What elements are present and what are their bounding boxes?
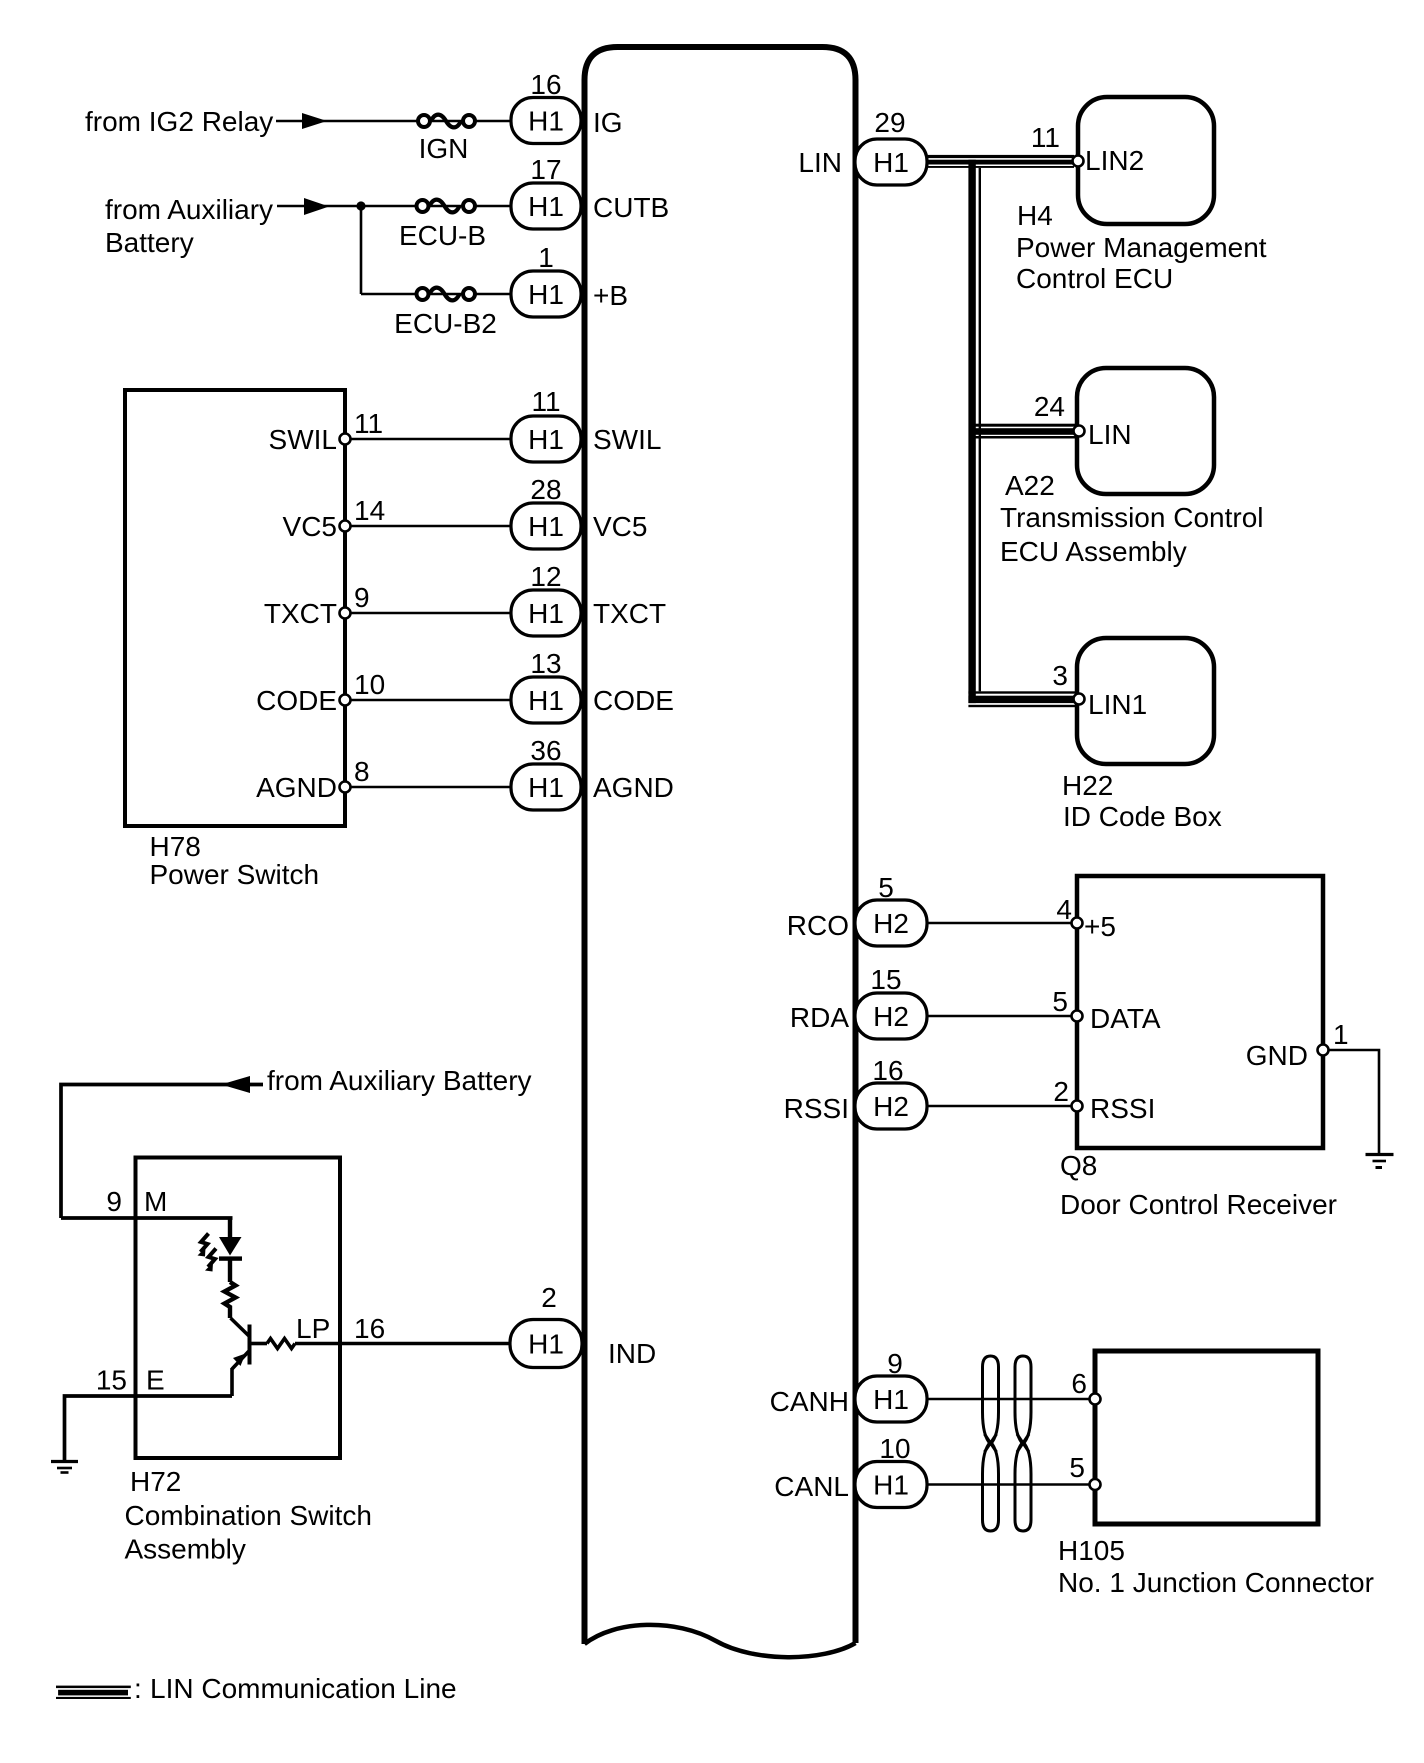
svg-text:SWIL: SWIL — [269, 424, 337, 455]
svg-text:1: 1 — [538, 242, 554, 273]
svg-text:Battery: Battery — [105, 227, 194, 258]
svg-text:H22: H22 — [1062, 770, 1113, 801]
svg-text:IG: IG — [593, 107, 623, 138]
svg-text:15: 15 — [96, 1365, 127, 1396]
svg-text:ECU-B2: ECU-B2 — [394, 308, 497, 339]
svg-text:VC5: VC5 — [593, 511, 647, 542]
svg-text:Door Control Receiver: Door Control Receiver — [1060, 1189, 1337, 1220]
svg-text:from Auxiliary Battery: from Auxiliary Battery — [267, 1065, 532, 1096]
svg-text:ECU-B: ECU-B — [399, 220, 486, 251]
svg-text:H1: H1 — [528, 685, 564, 716]
svg-text:10: 10 — [879, 1433, 910, 1464]
svg-text:LIN: LIN — [798, 147, 842, 178]
svg-text:16: 16 — [354, 1313, 385, 1344]
svg-text:DATA: DATA — [1090, 1003, 1161, 1034]
svg-text:H2: H2 — [873, 1001, 909, 1032]
svg-text:SWIL: SWIL — [593, 424, 661, 455]
svg-text:H1: H1 — [528, 511, 564, 542]
svg-text:2: 2 — [541, 1282, 557, 1313]
svg-text:28: 28 — [530, 474, 561, 505]
svg-text:Control ECU: Control ECU — [1016, 263, 1173, 294]
svg-text:TXCT: TXCT — [264, 598, 337, 629]
svg-text:9: 9 — [887, 1348, 903, 1379]
svg-text:LIN2: LIN2 — [1085, 145, 1144, 176]
svg-text:RSSI: RSSI — [784, 1093, 849, 1124]
svg-text:LIN Communication Line: LIN Communication Line — [150, 1673, 457, 1704]
svg-text:ID Code Box: ID Code Box — [1063, 801, 1222, 832]
svg-text:29: 29 — [874, 107, 905, 138]
svg-text:IGN: IGN — [419, 133, 469, 164]
svg-text:from IG2 Relay: from IG2 Relay — [85, 106, 273, 137]
svg-text:ECU Assembly: ECU Assembly — [1000, 536, 1187, 567]
svg-text:15: 15 — [870, 964, 901, 995]
svg-text:6: 6 — [1071, 1368, 1087, 1399]
svg-text:AGND: AGND — [256, 772, 337, 803]
svg-text:Q8: Q8 — [1060, 1150, 1097, 1181]
svg-text:IND: IND — [608, 1338, 656, 1369]
svg-text:Combination Switch: Combination Switch — [125, 1500, 372, 1531]
svg-text:16: 16 — [530, 69, 561, 100]
svg-text:5: 5 — [1052, 986, 1068, 1017]
svg-text:Transmission Control: Transmission Control — [1000, 502, 1263, 533]
svg-text:3: 3 — [1052, 660, 1068, 691]
svg-text:+B: +B — [593, 280, 628, 311]
svg-text:5: 5 — [878, 872, 894, 903]
svg-text:H72: H72 — [130, 1466, 181, 1497]
svg-text:H1: H1 — [528, 772, 564, 803]
svg-text:36: 36 — [530, 735, 561, 766]
svg-text:11: 11 — [531, 386, 560, 417]
svg-text:Assembly: Assembly — [125, 1534, 246, 1565]
svg-text:8: 8 — [354, 756, 370, 787]
svg-text:H1: H1 — [528, 424, 564, 455]
svg-text:RDA: RDA — [790, 1002, 849, 1033]
svg-text:LIN: LIN — [1088, 419, 1132, 450]
svg-text:RCO: RCO — [787, 910, 849, 941]
svg-text:4: 4 — [1056, 894, 1072, 925]
svg-text:H1: H1 — [873, 1470, 909, 1501]
svg-text:H1: H1 — [528, 279, 564, 310]
svg-text:RSSI: RSSI — [1090, 1093, 1155, 1124]
svg-text:H4: H4 — [1017, 200, 1053, 231]
svg-text:5: 5 — [1069, 1452, 1085, 1483]
svg-text:12: 12 — [530, 561, 561, 592]
svg-text:+5: +5 — [1084, 911, 1116, 942]
svg-text:H1: H1 — [873, 1384, 909, 1415]
svg-text:AGND: AGND — [593, 772, 674, 803]
svg-text:M: M — [144, 1186, 167, 1217]
svg-text:LP: LP — [296, 1313, 330, 1344]
svg-text:CANL: CANL — [774, 1471, 849, 1502]
svg-text:2: 2 — [1053, 1076, 1069, 1107]
svg-text:Power Switch: Power Switch — [150, 859, 320, 890]
svg-text:VC5: VC5 — [283, 511, 337, 542]
svg-text:CODE: CODE — [593, 685, 674, 716]
svg-text:17: 17 — [530, 154, 561, 185]
svg-text:H1: H1 — [873, 147, 909, 178]
svg-text:CODE: CODE — [256, 685, 337, 716]
svg-text:Power Management: Power Management — [1016, 232, 1267, 263]
svg-text:TXCT: TXCT — [593, 598, 666, 629]
svg-text:11: 11 — [1031, 122, 1060, 153]
svg-text:H78: H78 — [150, 831, 201, 862]
svg-text:GND: GND — [1246, 1040, 1308, 1071]
svg-text:16: 16 — [872, 1055, 903, 1086]
svg-text:CUTB: CUTB — [593, 192, 669, 223]
svg-text:9: 9 — [106, 1186, 122, 1217]
svg-text:H2: H2 — [873, 1091, 909, 1122]
svg-text::: : — [134, 1673, 142, 1704]
svg-text:10: 10 — [354, 669, 385, 700]
svg-text:13: 13 — [530, 648, 561, 679]
svg-text:H1: H1 — [528, 106, 564, 137]
svg-text:1: 1 — [1333, 1019, 1349, 1050]
svg-text:24: 24 — [1034, 391, 1065, 422]
svg-text:H1: H1 — [528, 1329, 564, 1360]
svg-text:H1: H1 — [528, 191, 564, 222]
svg-text:CANH: CANH — [770, 1386, 849, 1417]
svg-text:14: 14 — [354, 495, 385, 526]
svg-text:H105: H105 — [1058, 1535, 1125, 1566]
svg-text:A22: A22 — [1005, 470, 1055, 501]
svg-text:E: E — [146, 1365, 165, 1396]
svg-text:9: 9 — [354, 582, 370, 613]
svg-text:from Auxiliary: from Auxiliary — [105, 194, 273, 225]
svg-text:H2: H2 — [873, 908, 909, 939]
svg-text:H1: H1 — [528, 598, 564, 629]
svg-text:No. 1 Junction Connector: No. 1 Junction Connector — [1058, 1567, 1374, 1598]
svg-text:LIN1: LIN1 — [1088, 689, 1147, 720]
svg-text:11: 11 — [354, 408, 383, 439]
